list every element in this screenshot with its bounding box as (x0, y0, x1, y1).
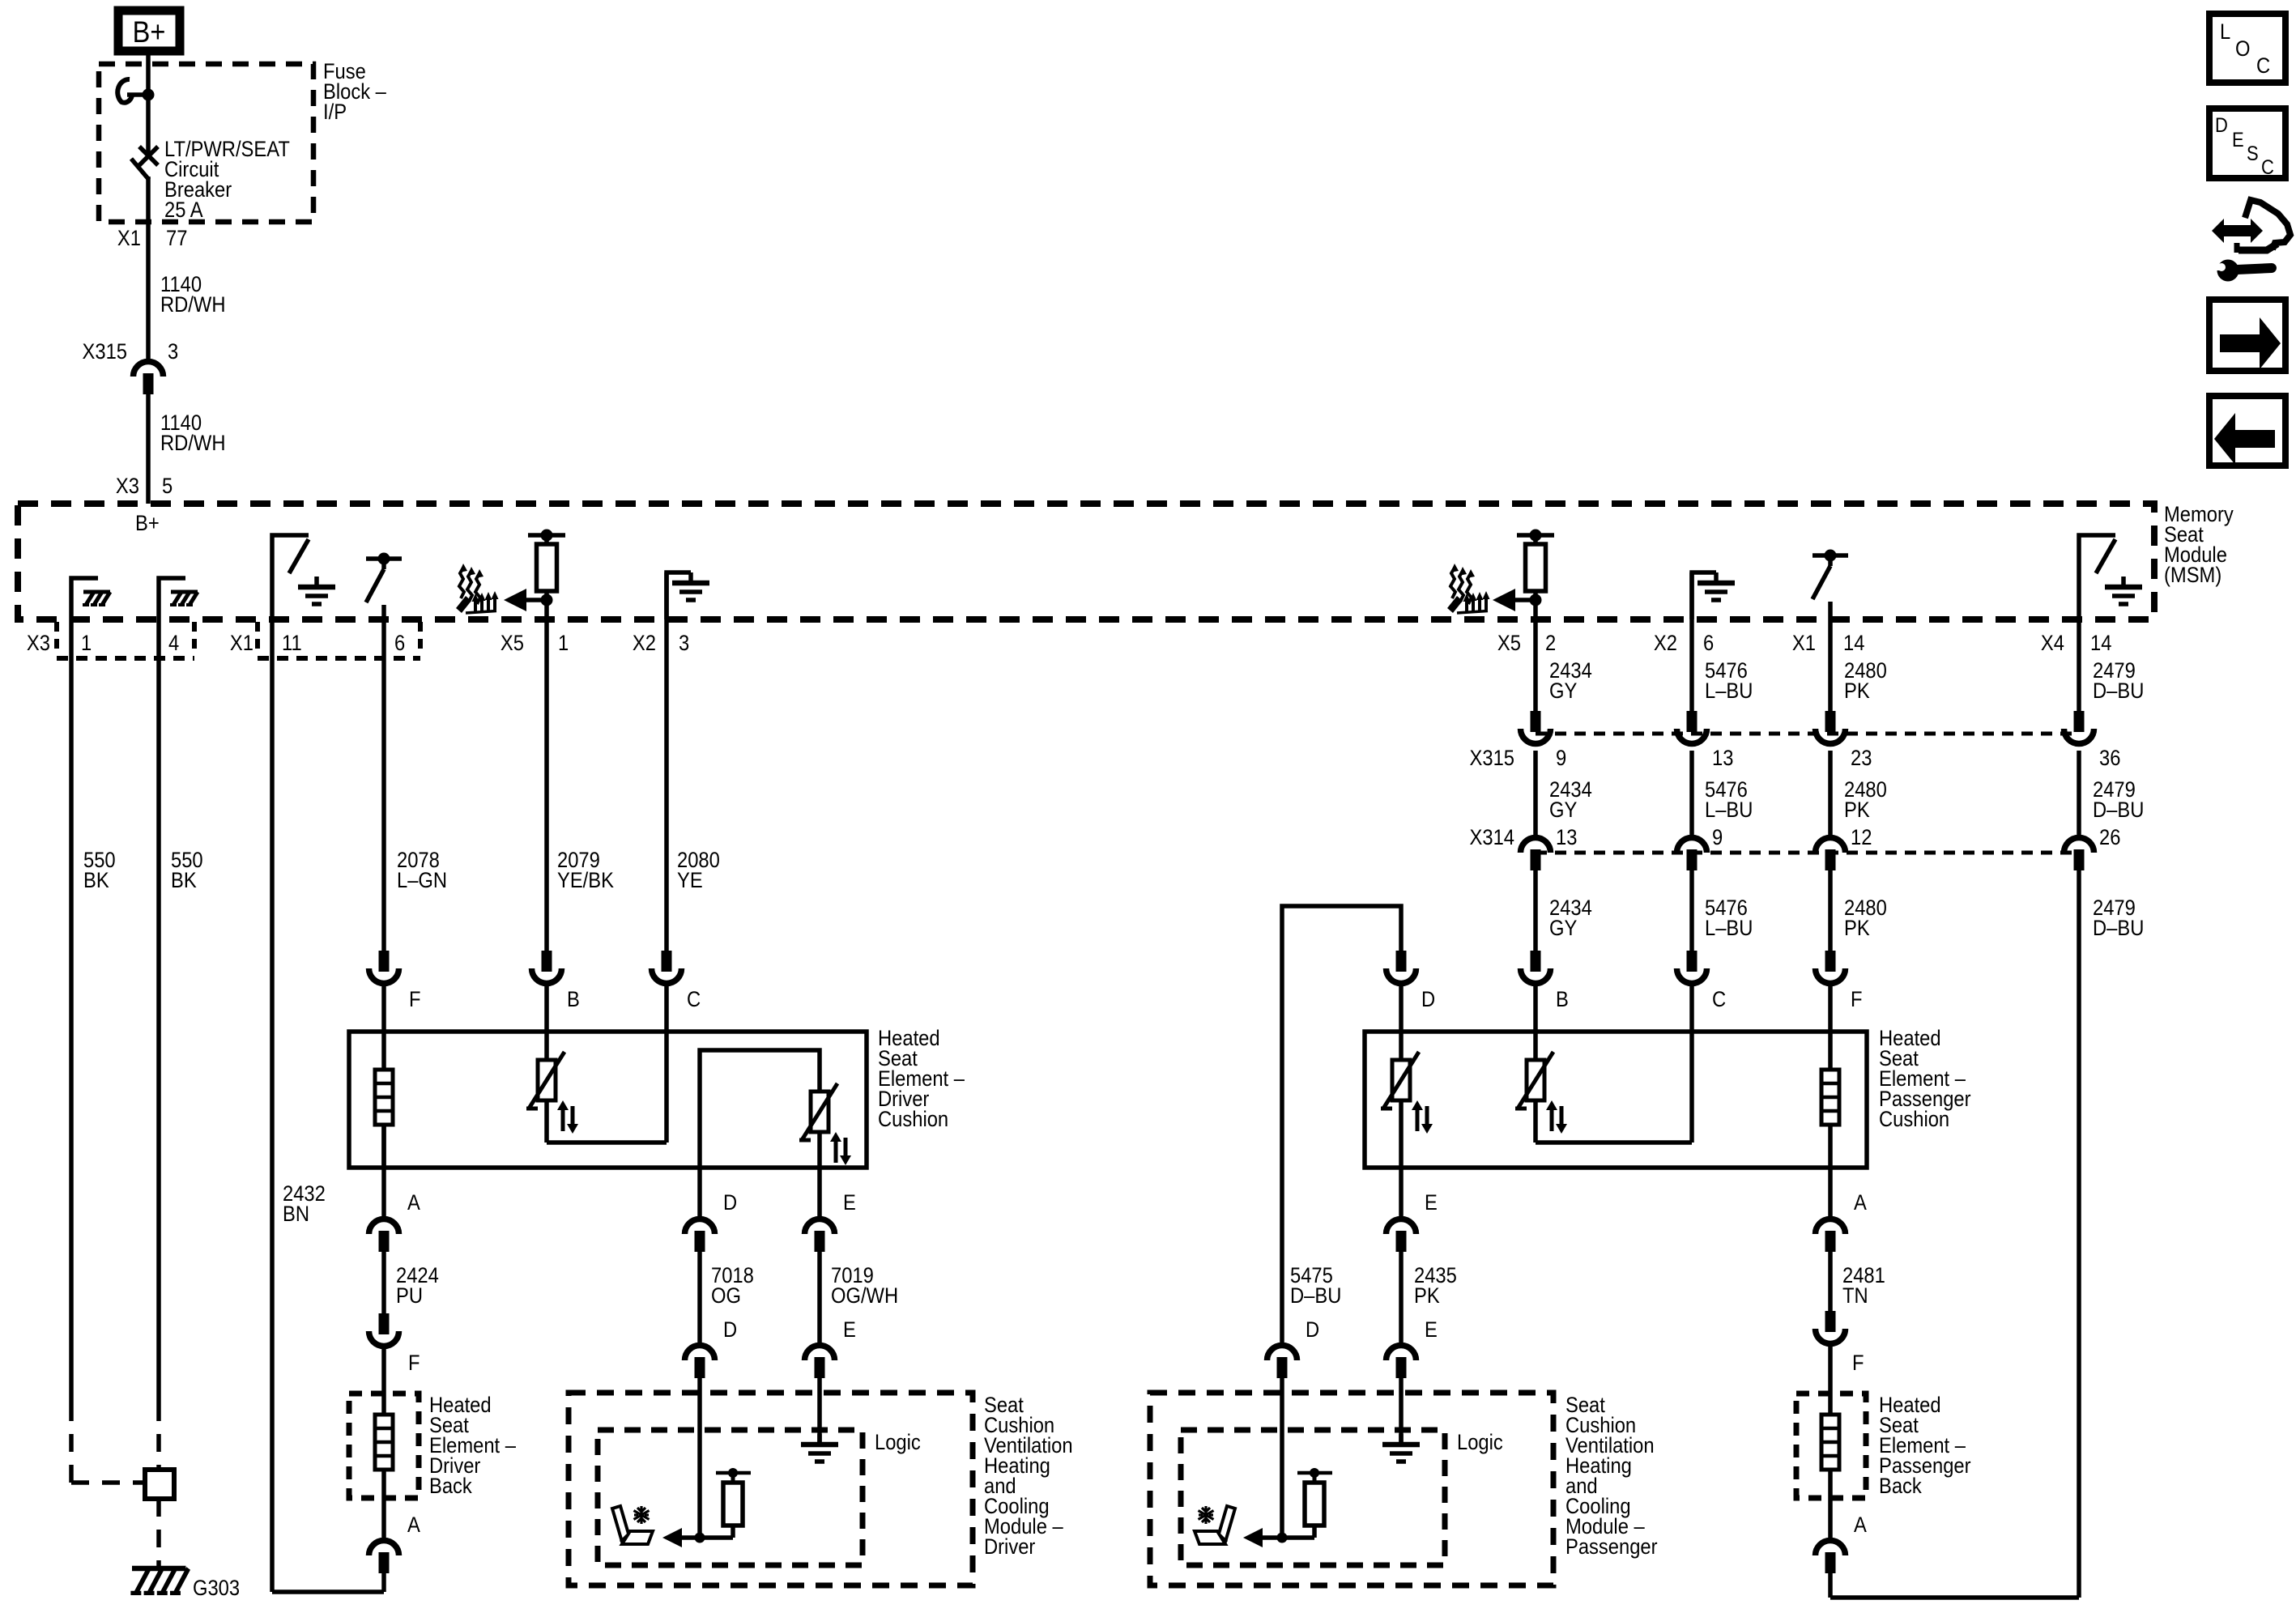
heated seat icon passenger (1447, 564, 1490, 613)
svg-text:X315: X315 (83, 340, 127, 364)
svg-text:5: 5 (162, 474, 173, 499)
svg-text:B+: B+ (133, 15, 166, 49)
wire thermistor1 to C loop (547, 1100, 667, 1143)
connector F driver back (369, 1313, 420, 1375)
thermistor passenger D (1381, 1052, 1433, 1134)
svg-text:13: 13 (1556, 826, 1577, 850)
connector D module driver (685, 1318, 738, 1378)
svg-text:14: 14 (2090, 632, 2111, 656)
svg-text:OG/WH: OG/WH (831, 1284, 898, 1308)
svg-text:Cushion: Cushion (1879, 1108, 1949, 1132)
earth ground at X4 switch (2105, 577, 2142, 604)
svg-text:OG: OG (711, 1284, 741, 1308)
switch on X1 pin 14 (1813, 550, 1848, 620)
svg-text:D–BU: D–BU (2093, 798, 2144, 823)
resistor in logic passenger (1297, 1468, 1332, 1538)
connector X314 pin 26 (2064, 826, 2121, 870)
wire 550 BK pin4 (156, 619, 161, 1403)
svg-text:X5: X5 (1497, 632, 1521, 656)
chassis ground on pin 1 (83, 592, 110, 605)
wire X3 pin 1 stub with chassis ground (71, 578, 98, 619)
back arrow icon box (2209, 396, 2285, 466)
arrow to heated seat driver (504, 589, 553, 611)
svg-text:PK: PK (1414, 1284, 1440, 1308)
svg-text:6: 6 (394, 632, 405, 656)
connector X315 pin 3 (83, 340, 179, 394)
svg-text:A: A (1854, 1513, 1867, 1538)
fuse element symbol (117, 79, 154, 103)
svg-text:X315: X315 (1470, 747, 1514, 771)
svg-text:PK: PK (1844, 798, 1870, 823)
svg-text:C: C (2256, 54, 2270, 79)
svg-text:Logic: Logic (1457, 1431, 1503, 1455)
ventilated seat icon driver (612, 1506, 653, 1545)
svg-text:PU: PU (396, 1284, 423, 1308)
vehicle wrench icon (2212, 200, 2290, 282)
Seat Cushion Ventilation Heating and Cooling Module Passenger dashed box (1150, 1393, 1553, 1585)
svg-text:B: B (567, 988, 580, 1012)
connector B passenger element (1521, 951, 1569, 1011)
dotted connector row X315 (1536, 732, 2079, 736)
svg-text:PK: PK (1844, 679, 1870, 704)
svg-text:G303: G303 (193, 1577, 240, 1601)
svg-text:E: E (843, 1191, 856, 1215)
connector A driver element (369, 1191, 420, 1252)
svg-text:3: 3 (679, 632, 689, 656)
pin label X3 5 (116, 474, 173, 499)
svg-text:Driver: Driver (984, 1535, 1036, 1560)
svg-text:Back: Back (1879, 1474, 1922, 1499)
ground on X2 pin 6 (1692, 572, 1716, 619)
svg-text:4: 4 (168, 632, 179, 656)
connector E module driver (805, 1318, 856, 1378)
svg-text:11: 11 (282, 632, 302, 656)
svg-text:D–BU: D–BU (2093, 917, 2144, 941)
svg-text:9: 9 (1712, 826, 1723, 850)
svg-text:A: A (1854, 1191, 1867, 1215)
svg-text:X1: X1 (230, 632, 253, 656)
svg-text:X3: X3 (116, 474, 139, 499)
pin labels X5 1 X2 3 (501, 632, 689, 656)
svg-text:D: D (723, 1318, 737, 1343)
svg-text:YE: YE (677, 869, 703, 893)
pin labels X3 1 4 (27, 632, 179, 656)
svg-text:Cushion: Cushion (878, 1108, 948, 1132)
svg-text:S: S (2247, 143, 2259, 165)
resistor in logic driver (716, 1468, 751, 1538)
switch on X1 pin 6 (366, 553, 402, 620)
svg-text:RD/WH: RD/WH (160, 432, 225, 456)
svg-text:36: 36 (2099, 747, 2120, 771)
svg-text:PK: PK (1844, 917, 1870, 941)
svg-text:BK: BK (83, 869, 109, 893)
wire 5476 L-BU X2 pin6 (1689, 572, 1694, 714)
wire X3 pin 4 stub with chassis ground (159, 578, 185, 619)
connector E passenger element bottom (1387, 1191, 1438, 1252)
svg-text:GY: GY (1549, 798, 1577, 823)
svg-text:E: E (843, 1318, 856, 1343)
svg-text:E: E (1425, 1318, 1438, 1343)
svg-text:D: D (1421, 988, 1435, 1012)
svg-text:1: 1 (81, 632, 92, 656)
svg-text:25 A: 25 A (164, 198, 203, 223)
forward arrow icon box (2209, 300, 2285, 371)
connector X315 pin 23 (1816, 711, 1872, 770)
connector A passenger back (1816, 1513, 1867, 1573)
wire A passenger element (1828, 1168, 1833, 1216)
chassis ground on pin 4 (170, 592, 198, 605)
wire X315 to X3 pin 5 (146, 394, 151, 504)
pin labels X1 11 6 (230, 632, 405, 656)
DESC icon box (2209, 109, 2285, 178)
thermistor driver 1 (526, 1052, 578, 1134)
svg-text:F: F (1852, 1351, 1864, 1376)
svg-text:I/P: I/P (323, 100, 347, 125)
connector F driver element (369, 951, 421, 1011)
battery positive voltage B+ box (118, 11, 180, 51)
wire junction to circuit breaker (146, 95, 151, 156)
arrow to heated seat passenger (1493, 589, 1542, 611)
pin labels right X5 2 X2 6 X1 14 X4 14 (1497, 632, 2111, 656)
svg-text:F: F (408, 1351, 420, 1376)
ground on X2 pin 3 (667, 572, 691, 619)
earth ground at pin 6 (1698, 572, 1735, 600)
wire loop B to C passenger (1536, 1100, 1692, 1143)
Heated Seat Element Passenger Back dashed box (1796, 1394, 1866, 1498)
earth ground at pin 3 (672, 572, 709, 600)
svg-text:L–GN: L–GN (397, 869, 447, 893)
svg-text:BK: BK (171, 869, 197, 893)
svg-text:77: 77 (166, 227, 187, 251)
Logic dashed box passenger (1181, 1430, 1445, 1565)
wire D jog passenger (1282, 906, 1401, 1343)
svg-text:6: 6 (1703, 632, 1714, 656)
svg-text:O: O (2235, 37, 2250, 62)
connector B driver element (532, 951, 580, 1011)
connector sub box X3 (57, 622, 194, 658)
svg-text:TN: TN (1842, 1284, 1868, 1308)
thermistor driver 2 (799, 1083, 851, 1165)
fuse block dashed box Fuse Block - I/P (99, 64, 313, 222)
connector D driver element bottom (685, 1191, 738, 1252)
dotted connector row X314 (1536, 851, 2079, 855)
Heated Seat Element Driver Back dashed box (349, 1394, 419, 1498)
svg-text:D: D (1306, 1318, 1319, 1343)
svg-text:X5: X5 (501, 632, 524, 656)
svg-text:X2: X2 (633, 632, 656, 656)
svg-text:C: C (2261, 156, 2274, 179)
svg-text:26: 26 (2099, 826, 2120, 850)
wire 2432 BN from X1 pin 11 (272, 619, 384, 1592)
svg-text:D–BU: D–BU (2093, 679, 2144, 704)
wire 2079 YE/BK X5 pin1 to B (544, 619, 549, 951)
wire 2078 L-GN pin 6 to F (381, 619, 386, 951)
wire E element to module driver (817, 1168, 822, 1216)
ground G303 (130, 1568, 240, 1600)
heated seat icon driver (456, 564, 499, 613)
connector X315 pin 9 (1470, 711, 1567, 770)
connector C passenger element (1677, 951, 1727, 1011)
svg-text:F: F (1851, 988, 1863, 1012)
connector X315 pin 36 (2064, 711, 2121, 770)
connector C driver element (652, 951, 701, 1011)
svg-text:L–BU: L–BU (1705, 679, 1753, 704)
connector X314 pin 13 (1470, 826, 1578, 870)
Heated Seat Element Driver Cushion box (349, 1032, 867, 1168)
svg-text:9: 9 (1556, 747, 1566, 771)
wire B+ to fuse block (146, 54, 151, 97)
connector X314 pin 9 (1677, 826, 1723, 870)
svg-text:2: 2 (1545, 632, 1556, 656)
svg-text:D–BU: D–BU (1290, 1284, 1341, 1308)
switch to ground on X4 pin 14 (2079, 535, 2115, 619)
svg-text:X314: X314 (1470, 826, 1514, 850)
svg-text:A: A (407, 1513, 420, 1538)
svg-text:X2: X2 (1654, 632, 1677, 656)
svg-text:E: E (2232, 129, 2244, 151)
connector F passenger back (1816, 1311, 1864, 1375)
connector D module passenger (1267, 1318, 1320, 1378)
svg-text:Logic: Logic (875, 1431, 921, 1455)
earth ground at pin 11 switch (298, 577, 335, 604)
svg-text:Back: Back (429, 1474, 472, 1499)
svg-text:X4: X4 (2041, 632, 2064, 656)
Seat Cushion Ventilation Heating and Cooling Module Driver dashed box (569, 1393, 973, 1585)
dashed continuation pin4 wire (156, 1403, 161, 1470)
svg-text:X1: X1 (1792, 632, 1816, 656)
Logic dashed box driver (598, 1430, 863, 1565)
svg-text:YE/BK: YE/BK (557, 869, 614, 893)
svg-text:L: L (2220, 20, 2230, 45)
svg-text:Passenger: Passenger (1565, 1535, 1658, 1560)
Memory Seat Module MSM dashed box (18, 504, 2154, 619)
svg-text:X3: X3 (27, 632, 50, 656)
connector X314 pin 12 (1816, 826, 1872, 870)
wire 2434 GY X5 pin2 (1533, 619, 1538, 714)
wire 2080 YE X2 pin3 to C (664, 572, 669, 951)
svg-text:D: D (723, 1191, 737, 1215)
svg-text:GY: GY (1549, 679, 1577, 704)
connector E module passenger (1387, 1318, 1438, 1378)
svg-text:C: C (1712, 988, 1726, 1012)
wire 2479 D-BU to passenger back (1830, 870, 2079, 1598)
wire 2479 D-BU X4 pin14 (2077, 619, 2081, 714)
heater element driver cushion (375, 1070, 393, 1125)
heater element passenger cushion (1821, 1070, 1839, 1125)
svg-text:D: D (2215, 114, 2228, 137)
wire breaker to connector X1 pin 77 (146, 177, 151, 362)
svg-text:23: 23 (1851, 747, 1872, 771)
resistor on X5 pin 1 (528, 530, 565, 620)
connector F passenger element (1816, 951, 1863, 1011)
dashed wire to G303 (156, 1499, 161, 1568)
svg-text:E: E (1425, 1191, 1438, 1215)
svg-text:12: 12 (1851, 826, 1872, 850)
wire D loop inside box (700, 1050, 820, 1168)
arrow node resistor circuit passenger (1243, 1528, 1314, 1547)
svg-text:L–BU: L–BU (1705, 917, 1753, 941)
connector X315 pin 13 (1677, 711, 1734, 770)
connector sub box X1 (258, 622, 420, 658)
svg-text:L–BU: L–BU (1705, 798, 1753, 823)
svg-text:X1: X1 (117, 227, 141, 251)
dashed continuation pin1 wire (71, 1403, 144, 1483)
splice box node (145, 1470, 174, 1499)
svg-text:14: 14 (1843, 632, 1864, 656)
connector A passenger element (1816, 1191, 1867, 1252)
wire 2480 PK X1 pin14 (1828, 619, 1833, 714)
connector D passenger element (1387, 951, 1436, 1011)
heater element driver back (375, 1415, 393, 1470)
svg-text:F: F (409, 988, 421, 1012)
svg-text:BN: BN (283, 1202, 309, 1227)
wire E passenger to module (1399, 1168, 1404, 1216)
LT/PWR/SEAT circuit breaker 25 A contact (131, 147, 158, 180)
resistor on X5 pin 2 (1517, 530, 1554, 620)
svg-text:C: C (687, 988, 701, 1012)
heater element passenger back (1821, 1415, 1839, 1470)
wire D element to module driver (697, 1168, 702, 1216)
earth ground in logic driver (801, 1434, 838, 1462)
connector A driver back (369, 1513, 420, 1573)
ventilated seat icon passenger (1195, 1506, 1235, 1545)
svg-text:RD/WH: RD/WH (160, 293, 225, 317)
svg-text:A: A (407, 1191, 420, 1215)
thermistor passenger B (1515, 1052, 1567, 1134)
svg-text:GY: GY (1549, 917, 1577, 941)
svg-text:1: 1 (558, 632, 569, 656)
svg-text:3: 3 (168, 340, 178, 364)
pin label X1 77 (117, 227, 187, 251)
svg-text:13: 13 (1712, 747, 1733, 771)
wire 550 BK pin1 (69, 619, 74, 1403)
svg-text:B+: B+ (135, 512, 160, 536)
LOC icon box (2209, 14, 2285, 83)
wire element A to back element (381, 1125, 386, 1216)
Heated Seat Element Passenger Cushion box (1365, 1032, 1867, 1168)
switch to ground on X1 pin 11 (272, 535, 309, 619)
arrow node resistor circuit driver (662, 1528, 733, 1547)
earth ground in logic passenger (1382, 1434, 1420, 1462)
svg-text:B: B (1556, 988, 1569, 1012)
connector E driver element bottom (805, 1191, 856, 1252)
svg-text:(MSM): (MSM) (2164, 564, 2221, 588)
